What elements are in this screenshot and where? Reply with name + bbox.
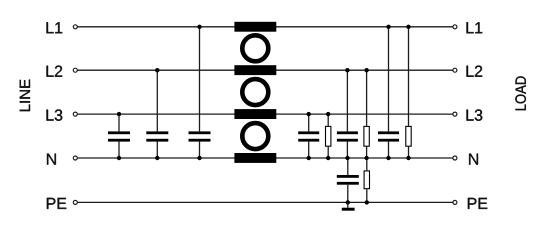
label N load-side: [469, 154, 478, 165]
label L3 line-side: [47, 109, 63, 120]
node R4-PE junction: [365, 200, 369, 204]
capacitor C6: [378, 131, 399, 141]
capacitor C3: [189, 131, 211, 141]
label L1 line-side: [47, 22, 63, 33]
wire capacitor C5 branch (L2 to N): [346, 70, 348, 158]
wire capacitor C6 branch (L1 to N): [388, 27, 390, 158]
resistor R3: [406, 126, 411, 146]
terminal L3 line-side: [73, 112, 77, 116]
capacitor C7: [337, 175, 359, 185]
label L3 load-side: [467, 109, 483, 120]
terminal L1 load-side: [453, 25, 457, 29]
wire capacitor C1 branch (L3 to N): [118, 114, 120, 158]
node C3-N junction: [197, 156, 201, 160]
terminal L2 load-side: [453, 68, 457, 72]
node R3-N junction: [406, 156, 410, 160]
node C1-L3 junction: [117, 112, 121, 116]
node C2-L2 junction: [155, 68, 159, 72]
terminal PE load-side: [453, 200, 457, 204]
wire PE: [78, 201, 453, 203]
terminal L3 load-side: [453, 112, 457, 116]
wire resistor R3 branch (L1 to N): [408, 27, 410, 158]
choke L1 winding L1: [234, 22, 276, 32]
node C1-N junction: [117, 156, 121, 160]
terminal N load-side: [453, 156, 457, 160]
node R2-L2 junction: [364, 68, 368, 72]
label L2 load-side: [467, 66, 483, 77]
choke L1 winding L2: [234, 65, 276, 75]
node R1-N junction: [326, 156, 330, 160]
resistor R4: [364, 171, 369, 189]
terminal N line-side: [73, 156, 77, 160]
label PE load-side: [468, 198, 487, 209]
wire earth stub: [347, 202, 349, 207]
wire resistor R2 branch (L2 to N): [366, 70, 368, 158]
terminal L2 line-side: [73, 68, 77, 72]
wire capacitor C4 branch (L3 to N): [308, 114, 310, 158]
wire L3: [78, 113, 453, 115]
terminal PE line-side: [73, 200, 77, 204]
ground earth bar: [342, 208, 355, 211]
capacitor C2: [146, 131, 168, 141]
wire resistor R1 branch (L3 to N): [327, 114, 329, 158]
wire resistor R4 branch (N to PE): [366, 158, 368, 202]
node R3-L1 junction: [406, 25, 410, 29]
choke L1 core ring 2: [242, 79, 268, 105]
node R2-R4-N junction: [364, 156, 368, 160]
wire capacitor C7 branch (N to PE): [347, 158, 349, 202]
choke L1 winding N: [234, 153, 276, 163]
resistor R1: [326, 126, 331, 146]
terminal L1 line-side: [73, 25, 77, 29]
label L2 line-side: [47, 66, 63, 77]
wire capacitor C3 branch (L1 to N): [199, 27, 201, 158]
choke L1 core ring 3: [242, 123, 268, 149]
node C5-L2 junction: [345, 68, 349, 72]
label L1 load-side: [467, 22, 483, 33]
wire L2: [78, 69, 453, 71]
node C7-PE junction: [346, 200, 350, 204]
node C6-L1 junction: [386, 25, 390, 29]
label PE line-side: [47, 198, 66, 209]
capacitor C5: [337, 131, 358, 141]
node C5-C7-N junction: [345, 156, 349, 160]
node C4-N junction: [307, 156, 311, 160]
wire L1: [78, 26, 453, 28]
capacitor C1: [108, 131, 130, 141]
wire N: [78, 157, 453, 159]
choke L1 winding L3: [234, 109, 276, 119]
node C4-L3 junction: [307, 112, 311, 116]
choke L1 core ring 1: [242, 35, 268, 61]
node C3-L1 junction: [197, 25, 201, 29]
node R1-L3 junction: [326, 112, 330, 116]
wire capacitor C2 branch (L2 to N): [156, 70, 158, 158]
label LOAD: [515, 76, 526, 110]
resistor R2: [364, 126, 369, 146]
label N line-side: [47, 154, 56, 165]
label LINE: [20, 80, 30, 112]
node C2-N junction: [155, 156, 159, 160]
node C6-N junction: [386, 156, 390, 160]
capacitor C4: [298, 131, 319, 141]
